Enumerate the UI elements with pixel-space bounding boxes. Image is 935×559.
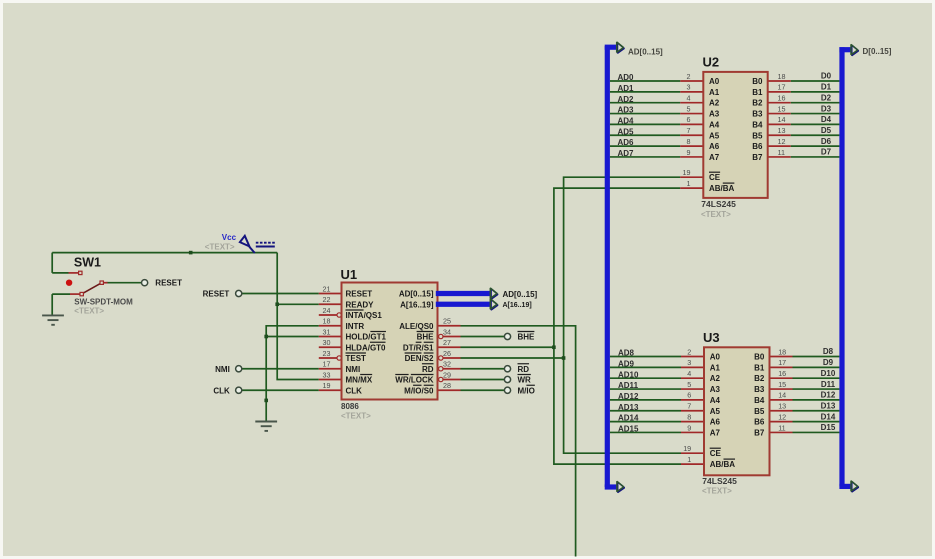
svg-text:33: 33 [323,370,331,379]
pin stub U3 A side [681,421,704,423]
bus stub U1 AD[0..15] [436,291,491,296]
svg-text:16: 16 [778,94,786,103]
wire U3 B1 to D bus (D9) [793,366,840,368]
svg-text:D14: D14 [821,412,836,421]
wire U2 B3 to D bus (D3) [791,113,840,115]
svg-text:24: 24 [323,306,331,315]
svg-text:TEST: TEST [346,354,367,363]
op-amp U1 body (8086 CPU) [342,283,438,400]
svg-text:AD[0..15]: AD[0..15] [503,290,538,299]
svg-text:22: 22 [323,295,331,304]
svg-text:4: 4 [687,94,691,103]
wire AD13 bus to U3 A5 [610,410,681,412]
terminal WR [504,376,510,382]
svg-text:CLK: CLK [346,386,363,395]
wire SW1 top throw drop [51,253,53,273]
pin stub U3 B side [770,399,793,401]
svg-text:1: 1 [687,179,691,188]
svg-text:19: 19 [323,381,331,390]
svg-text:AD[0..15]: AD[0..15] [628,47,663,56]
svg-text:BHE: BHE [417,333,435,342]
chip U2 body (74LS245) [703,72,767,198]
svg-text:A6: A6 [710,418,721,427]
svg-text:7: 7 [687,126,691,135]
svg-text:Vcc: Vcc [222,233,237,242]
wire U2 B7 to D bus (D7) [791,156,840,158]
pin stub U3 AB/BA [681,463,704,465]
svg-text:12: 12 [778,412,786,421]
svg-text:25: 25 [443,317,451,326]
pin stub U3 A side [681,356,704,358]
terminal BHE [504,333,510,339]
svg-text:27: 27 [443,338,451,347]
terminal RD [504,366,510,372]
svg-text:B6: B6 [754,418,765,427]
svg-text:34: 34 [443,327,451,336]
svg-text:AD4: AD4 [618,117,635,126]
pin stub U2 A side [680,123,703,125]
pin stub U3 B side [770,421,793,423]
svg-text:AB/BA: AB/BA [710,460,736,469]
pin stub U2 AB/BA [680,187,703,189]
svg-text:26: 26 [443,349,451,358]
svg-text:DEN/S2: DEN/S2 [405,354,434,363]
pin stub U3 B side [770,366,793,368]
pin stub U2 B side [768,102,791,104]
pin bubble U1 TEST pin23 [337,356,341,360]
svg-text:A4: A4 [710,396,721,405]
pin stub U2 A side [680,102,703,104]
svg-text:A5: A5 [710,407,721,416]
svg-text:NMI: NMI [215,365,230,374]
wire RESET terminal to pin21 [242,293,319,295]
wire U2 B0 to D bus (D0) [791,80,840,82]
svg-text:B1: B1 [754,363,765,372]
svg-text:8: 8 [687,412,691,421]
svg-text:U3: U3 [703,330,720,345]
wire AD6 bus to U2 A6 [610,145,680,147]
svg-text:14: 14 [778,115,786,124]
switch SW1 common pin [70,293,80,295]
wire ALE pin25 down to bottom edge [461,326,576,557]
wire BHE pin34 to terminal [461,336,505,338]
svg-text:B6: B6 [752,142,763,151]
svg-text:D[0..15]: D[0..15] [863,47,892,56]
wire Vcc vertical to READY and MN/MX [277,253,319,380]
pin stub U2 B side [768,134,791,136]
pin stub U2 A side [680,80,703,82]
svg-text:D15: D15 [821,423,836,432]
pin stub U2 A side [680,91,703,93]
wire AD10 bus to U3 A2 [610,377,681,379]
svg-text:D9: D9 [823,358,834,367]
wire U3 B3 to D bus (D11) [793,388,840,390]
ground under U1 (CLK/INTR net) [255,422,277,431]
svg-text:CE: CE [710,449,722,458]
switch SW1 red actuator dot [66,280,72,286]
power symbol dashes [256,243,275,247]
svg-text:11: 11 [778,148,785,157]
junction ground net [264,399,268,403]
svg-text:<TEXT>: <TEXT> [205,242,235,251]
wire AD0 bus to U2 A0 [610,80,680,82]
svg-text:DT/R/S1: DT/R/S1 [403,343,434,352]
wire AD8 bus to U3 A0 [610,356,681,358]
terminal CLK [236,387,242,393]
svg-text:AD9: AD9 [618,359,635,368]
svg-text:74LS245: 74LS245 [701,199,736,209]
pin stub U3 CE [681,452,704,454]
svg-text:9: 9 [687,148,691,157]
svg-text:23: 23 [323,349,331,358]
bus D top corner stub [839,47,851,52]
pin stub U3 A side [681,431,704,433]
pin stub U2 B side [768,113,791,115]
svg-text:B0: B0 [752,77,763,86]
svg-text:RESET: RESET [155,278,182,287]
svg-text:MN/MX: MN/MX [346,376,373,385]
wire SW1 lever tip to RESET terminal [107,282,142,284]
wire U2 B5 to D bus (D5) [791,134,840,136]
bus arrow D top [851,44,859,55]
pin stub U3 A side [681,399,704,401]
pin bubble U1 WR pin29 [439,377,443,381]
pin stub U1 right row6 [438,346,461,348]
pin stub U2 A side [680,145,703,147]
svg-text:AD3: AD3 [618,106,635,115]
svg-text:A1: A1 [710,363,721,372]
pin stub U3 B side [770,431,793,433]
svg-text:B3: B3 [752,110,763,119]
svg-text:B7: B7 [754,428,765,437]
pin stub U2 A side [680,113,703,115]
wire INTR pin18 ground net [266,326,319,421]
svg-text:B1: B1 [752,88,763,97]
junction DEN to CE net [562,356,566,360]
svg-text:<TEXT>: <TEXT> [74,307,104,316]
switch SW1 common contact square [80,292,83,295]
ground under SW1 [42,315,64,324]
bus AD top corner stub [605,45,617,50]
pin stub U3 B side [770,410,793,412]
svg-text:INTR: INTR [346,322,365,331]
pin stub U3 A side [681,388,704,390]
svg-text:30: 30 [323,338,331,347]
svg-text:AD14: AD14 [618,414,639,423]
svg-text:HOLD/GT1: HOLD/GT1 [346,333,387,342]
svg-text:1: 1 [687,455,691,464]
svg-text:SW1: SW1 [74,255,101,269]
wire U3 B2 to D bus (D10) [793,377,840,379]
pin stub U1 left row10 [319,389,342,391]
svg-text:6: 6 [687,391,691,400]
wire RD pin32 to terminal [461,368,505,370]
svg-text:A0: A0 [709,77,720,86]
wire AD7 bus to U2 A7 [610,156,680,158]
wire NMI terminal to pin17 [242,368,319,370]
svg-text:CE: CE [709,173,721,182]
svg-text:B0: B0 [754,353,765,362]
svg-text:AD2: AD2 [618,95,635,104]
pin stub U1 right row7 [443,357,460,359]
wire DEN pin26 to CE vertical [461,357,564,359]
svg-text:5: 5 [687,104,691,113]
svg-text:17: 17 [778,358,786,367]
pin stub U1 right row5 [443,336,460,338]
overlines for pin names and labels [346,309,364,311]
wire U2 B6 to D bus (D6) [791,145,840,147]
svg-text:NMI: NMI [346,365,361,374]
svg-text:4: 4 [687,369,691,378]
pin stub U1 left row5 [319,336,342,338]
svg-text:AB/BA: AB/BA [709,184,735,193]
pin bubble U1 BHE pin34 [439,334,443,338]
pin stub U2 B side [768,156,791,158]
svg-text:B2: B2 [754,374,765,383]
svg-text:18: 18 [778,347,786,356]
svg-text:29: 29 [443,370,451,379]
svg-text:ALE/QS0: ALE/QS0 [399,322,434,331]
svg-text:M/IO: M/IO [518,386,535,395]
svg-text:19: 19 [683,444,691,453]
wire U3 B5 to D bus (D13) [793,410,840,412]
wire MIO pin28 to terminal [461,389,505,391]
wire SW1 common to ground [52,293,70,295]
svg-text:D3: D3 [821,104,832,113]
switch SW1 top throw contact [69,272,79,274]
svg-text:12: 12 [778,137,786,146]
pin bubble U1 DEN pin26 [439,356,443,360]
svg-text:A7: A7 [710,428,721,437]
bus arrow U1 AD [490,288,498,299]
pin stub U1 right row4 [438,325,461,327]
wire AD2 bus to U2 A2 [610,102,680,104]
svg-text:U1: U1 [341,267,358,282]
pin stub U1 left row3 [319,314,337,316]
svg-text:D12: D12 [821,391,836,400]
svg-text:HLDA/GT0: HLDA/GT0 [346,343,387,352]
junction on Vcc rail [189,251,193,255]
pin stub U3 A side [681,377,704,379]
wire READY pin22 to Vcc vertical [277,303,319,305]
pin stub U3 B side [770,356,793,358]
svg-text:WR/LOCK: WR/LOCK [395,376,433,385]
wire U3 B7 to D bus (D15) [793,431,840,433]
wire AD4 bus to U2 A4 [610,123,680,125]
svg-text:17: 17 [323,360,331,369]
pin stub U1 right row9 [443,379,460,381]
svg-text:A6: A6 [709,142,720,151]
pin stub U2 B side [768,80,791,82]
pin stub U1 left row8 [319,368,342,370]
wire U2 B1 to D bus (D1) [791,91,840,93]
svg-text:B7: B7 [752,153,763,162]
pin bubble U1 INTA/QS1 pin24 [337,313,341,317]
svg-text:D10: D10 [821,369,836,378]
svg-text:SW-SPDT-MOM: SW-SPDT-MOM [74,298,133,307]
svg-text:A2: A2 [710,374,721,383]
pin stub U1 left row7 [319,357,337,359]
svg-text:B4: B4 [754,396,765,405]
terminal RESET at U1 [236,290,242,296]
svg-text:8086: 8086 [341,402,359,411]
svg-text:7: 7 [687,402,691,411]
wire SW1 top throw segment [52,272,68,274]
svg-text:D4: D4 [821,115,832,124]
terminal RESET at SW1 [142,280,148,286]
pin stub U1 right row8 [443,368,460,370]
svg-text:AD7: AD7 [618,149,635,158]
wire AD1 bus to U2 A1 [610,91,680,93]
svg-text:15: 15 [778,104,786,113]
svg-text:READY: READY [346,300,375,309]
wire U2 B4 to D bus (D4) [791,123,840,125]
svg-text:74LS245: 74LS245 [702,476,737,486]
svg-text:D13: D13 [821,401,836,410]
pin stub U3 A side [681,366,704,368]
pin stub U2 CE [680,176,703,178]
wire U3 B0 to D bus (D8) [793,356,840,358]
svg-text:AD6: AD6 [618,138,635,147]
svg-text:3: 3 [687,358,691,367]
svg-text:A[16..19]: A[16..19] [400,300,434,309]
wire U3 B6 to D bus (D14) [793,421,840,423]
svg-text:AD[0..15]: AD[0..15] [399,290,434,299]
bus AD[0..15] vertical [605,46,610,487]
bus D[0..15] vertical [839,47,844,486]
wire AD14 bus to U3 A6 [610,421,681,423]
svg-text:11: 11 [778,423,785,432]
svg-text:WR: WR [518,376,532,385]
svg-text:A[16..19]: A[16..19] [503,302,532,309]
svg-text:AD15: AD15 [618,425,639,434]
svg-text:18: 18 [778,72,786,81]
svg-text:6: 6 [687,115,691,124]
svg-text:AD12: AD12 [618,392,639,401]
bus arrow D bottom [851,481,859,492]
svg-text:A4: A4 [709,120,720,129]
svg-text:15: 15 [778,380,786,389]
wire WR pin29 to terminal [461,379,505,381]
pin bubble U1 RD pin32 [439,367,443,371]
svg-text:<TEXT>: <TEXT> [701,210,731,219]
wire AD3 bus to U2 A3 [610,113,680,115]
switch SW1 pin to terminal [103,282,107,284]
terminal MIO [504,387,510,393]
svg-text:D8: D8 [823,347,834,356]
bus arrow AD top [617,42,625,53]
svg-text:16: 16 [778,369,786,378]
power terminal Vcc [240,236,255,253]
svg-text:28: 28 [443,381,451,390]
junction HOLD-ground [264,335,268,339]
pin stub U1 left row6 [319,346,342,348]
svg-text:RD: RD [422,365,434,374]
svg-text:AD8: AD8 [618,349,635,358]
wire U2 B2 to D bus (D2) [791,102,840,104]
svg-text:A1: A1 [709,88,720,97]
bus AD bottom corner stub [605,484,617,489]
svg-text:A3: A3 [709,110,720,119]
svg-text:14: 14 [778,391,786,400]
wire U3 B4 to D bus (D12) [793,399,840,401]
svg-text:AD11: AD11 [618,381,639,390]
svg-text:A0: A0 [710,353,721,362]
wire HOLD pin31 to ground vertical [266,336,319,338]
junction READY-Vcc [275,302,279,306]
svg-text:13: 13 [778,402,786,411]
svg-text:D7: D7 [821,148,832,157]
svg-text:AD13: AD13 [618,403,639,412]
pin stub U1 left row2 [319,303,342,305]
svg-text:B5: B5 [752,131,763,140]
svg-text:B4: B4 [752,120,763,129]
svg-text:2: 2 [687,347,691,356]
svg-text:BHE: BHE [518,333,536,342]
pin stub U3 B side [770,377,793,379]
junction DT/R to AB/BA net [552,345,556,349]
svg-text:INTA/QS1: INTA/QS1 [346,311,383,320]
pin stub U2 A side [680,156,703,158]
pin stub U3 B side [770,388,793,390]
svg-text:D0: D0 [821,72,832,81]
svg-text:A3: A3 [710,385,721,394]
terminal NMI [236,366,242,372]
svg-text:B3: B3 [754,385,765,394]
svg-text:13: 13 [778,126,786,135]
svg-text:<TEXT>: <TEXT> [702,486,732,495]
svg-text:31: 31 [323,327,331,336]
svg-text:9: 9 [687,423,691,432]
bus arrow U1 A [490,299,498,310]
switch SW1 lever [82,283,101,293]
wire Vcc rail from SW1 to power corner [52,252,277,254]
svg-text:AD10: AD10 [618,370,639,379]
svg-text:D2: D2 [821,93,832,102]
pin stub U1 left row1 [319,293,342,295]
svg-text:RD: RD [518,365,530,374]
wire CE net U2-pin19 to U3-pin19 [564,177,681,453]
svg-text:<TEXT>: <TEXT> [341,412,371,421]
svg-text:U2: U2 [703,55,720,70]
pin stub U2 B side [768,123,791,125]
svg-text:AD0: AD0 [618,73,635,82]
svg-text:32: 32 [443,360,451,369]
pin stub U2 B side [768,145,791,147]
bus stub U1 A[16..19] [436,302,491,307]
svg-text:D11: D11 [821,380,836,389]
svg-text:B2: B2 [752,99,763,108]
wire AD11 bus to U3 A3 [610,388,681,390]
svg-text:A7: A7 [709,153,720,162]
svg-text:RESET: RESET [346,290,373,299]
svg-text:D1: D1 [821,83,832,92]
svg-text:5: 5 [687,380,691,389]
pin stub U1 right row10 [438,389,461,391]
pin stub U2 B side [768,91,791,93]
pin stub U1 left row4 [319,325,342,327]
svg-text:CLK: CLK [213,386,230,395]
svg-text:M/IO/S0: M/IO/S0 [404,386,434,395]
svg-text:8: 8 [687,137,691,146]
bus D bottom corner stub [839,484,851,489]
bus arrow AD bottom [617,481,625,492]
svg-text:RESET: RESET [203,290,230,299]
svg-text:D5: D5 [821,126,832,135]
wire AD12 bus to U3 A4 [610,399,681,401]
wire AD5 bus to U2 A5 [610,134,680,136]
svg-text:19: 19 [683,168,691,177]
